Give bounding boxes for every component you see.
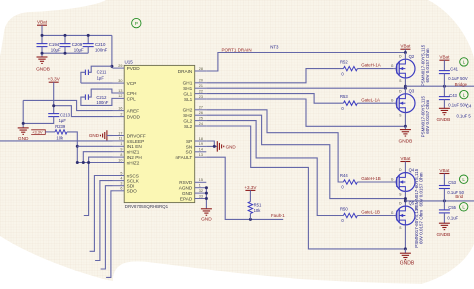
svg-text:GateL-1A: GateL-1A [361,97,380,102]
power port +3.3V left [48,77,61,114]
svg-text:30: 30 [118,79,122,83]
transistor Q3 [391,88,415,117]
svg-text:Bridge: Bridge [455,82,468,87]
svg-text:33: 33 [199,194,203,198]
wire nSLEEP rail [0,140,113,142]
resistor R52 [340,59,393,76]
svg-text:GateH-1B: GateH-1B [361,176,381,181]
wire SN [206,145,217,148]
svg-text:10µF: 10µF [51,48,61,53]
wire SP [206,141,214,146]
svg-text:SP: SP [186,139,192,144]
wire SDI [101,186,113,269]
svg-text:L: L [463,92,466,97]
annotation circle P [132,18,141,27]
ground GND at DRVOFF [89,130,113,141]
svg-text:VBat: VBat [439,55,450,60]
power port VBat Q2 [400,44,411,54]
wire PVDD feed [111,35,113,68]
transistor Q2 part text [420,44,430,86]
svg-text:14: 14 [199,148,203,152]
capacitor C194 [37,35,62,53]
svg-text:SL2: SL2 [184,124,193,129]
svg-text:60V 0.0157 Ohm: 60V 0.0157 Ohm [419,210,424,244]
svg-text:60V 0.0157 Ohm: 60V 0.0157 Ohm [425,48,430,82]
wire AREF rail [23,100,112,110]
wire VCP row [81,82,113,84]
junction dots left [22,104,56,125]
svg-text:18: 18 [199,137,203,141]
wire SCLK [95,181,112,261]
svg-text:17: 17 [118,131,122,135]
capacitor C53 [439,168,465,201]
resistor R53 [340,94,393,111]
resistor R239 [45,124,79,163]
wire DRAIN to VBat node [206,53,405,72]
svg-text:SO: SO [186,150,193,155]
svg-text:CPL: CPL [127,96,137,101]
svg-text:C41: C41 [450,66,458,71]
svg-text:22: 22 [199,89,203,93]
svg-text:G: G [391,177,394,181]
net label GateL-1B [361,210,380,215]
svg-text:IN1 EN: IN1 EN [127,144,142,149]
svg-text:GND: GND [201,217,212,223]
wire SH1 [206,87,407,90]
svg-text:GNDB: GNDB [436,232,450,238]
svg-text:VBat: VBat [400,156,411,161]
capacitor C212 [81,89,113,105]
wire nHIZ1 [83,152,112,163]
svg-text:GH1: GH1 [183,81,193,86]
svg-text:PVDD: PVDD [127,66,141,71]
junction dots cap bank [41,34,114,68]
svg-text:DRVOFF: DRVOFF [127,133,146,138]
wire EPAD ground chain [205,186,208,209]
svg-text:nSLEEP: nSLEEP [127,139,145,144]
svg-text:Q3: Q3 [409,88,415,93]
transistor Q2 [391,53,415,84]
svg-text:R239: R239 [55,124,66,129]
svg-text:nHIZ2: nHIZ2 [127,160,140,165]
svg-text:GL2: GL2 [183,119,192,124]
svg-text:15: 15 [199,178,203,182]
capacitor C43 [439,86,468,108]
svg-text:Q5: Q5 [409,201,415,206]
transistor Q3 part text [420,95,430,137]
svg-text:C212: C212 [96,95,107,100]
wire node B link [404,191,407,206]
wire nSCS [90,176,113,252]
svg-text:6: 6 [120,187,122,191]
power port +3.3V R51 [244,185,257,202]
net label GateL-1A [361,97,380,102]
svg-text:29: 29 [118,64,122,68]
ground GND left [18,128,29,142]
wire SL2 [206,126,405,249]
svg-text:5: 5 [120,171,122,175]
svg-text:0.1uF: 0.1uF [447,215,458,220]
svg-text:VCP: VCP [127,81,137,86]
ground GNDB C55 [436,223,450,238]
svg-text:L: L [462,177,465,182]
svg-text:0.1uF 50V: 0.1uF 50V [448,103,468,108]
svg-text:24: 24 [199,122,203,126]
net label GateH-1A [361,63,381,68]
svg-text:G: G [391,64,394,68]
svg-text:10k: 10k [254,208,262,213]
svg-text:R44: R44 [340,173,348,178]
wire SL1 [206,99,405,126]
annotation circle L4 [460,203,468,211]
net tie NT3 label [270,44,279,49]
wire IN1 EN [77,145,112,147]
svg-text:+3.3V: +3.3V [244,185,257,190]
svg-text:AGND: AGND [179,186,193,191]
svg-text:1µF: 1µF [59,118,67,123]
svg-text:21: 21 [199,84,203,88]
capacitor C210 [83,35,108,53]
svg-text:20: 20 [199,79,203,83]
svg-text:26: 26 [199,111,203,115]
ground GNDB cap bank [36,53,50,72]
capacitor C209 [60,35,85,53]
svg-text:PORT1 DRAIN: PORT1 DRAIN [222,47,252,52]
svg-text:C55: C55 [448,205,456,210]
svg-text:0.1uF 50: 0.1uF 50 [447,190,464,195]
svg-text:nFAULT: nFAULT [175,155,192,160]
svg-text:100nF: 100nF [96,100,108,105]
wire SDO [106,191,112,278]
wire phase A link [404,78,407,94]
svg-text:VBat: VBat [37,20,48,25]
svg-text:25: 25 [199,116,203,120]
capacitor C211 [81,66,112,83]
wire GL2 [206,121,343,216]
svg-text:C210: C210 [95,42,106,47]
svg-text:13: 13 [199,153,203,157]
power port +3.3V R239 [31,130,45,135]
wire cap bank bottom bus [42,52,88,54]
svg-text:SH1: SH1 [183,86,193,91]
svg-text:R52: R52 [340,59,348,64]
net label Bridge A [455,82,468,87]
svg-text:C213: C213 [60,113,71,118]
svg-text:C4: C4 [466,104,472,109]
svg-text:0.1uF 5: 0.1uF 5 [457,114,472,119]
svg-text:GL1: GL1 [183,92,192,97]
svg-text:GateH-1A: GateH-1A [361,63,381,68]
wire GL1 [206,94,343,104]
svg-text:13: 13 [118,89,122,93]
annotation circle L3 [460,175,468,183]
annotation circle L2 [460,90,468,98]
wire GH1 [206,69,343,83]
svg-text:GNDB: GNDB [36,66,50,72]
svg-text:C211: C211 [97,70,107,75]
svg-text:GND: GND [226,144,237,149]
svg-text:L: L [463,60,466,65]
wire VBat bus top [42,34,112,36]
ground GND EPAD [201,209,212,223]
power port VBat Q4 [400,156,411,173]
text fragment right edge [457,104,473,119]
wire Q5 source [404,225,407,250]
svg-text:19: 19 [199,142,203,146]
svg-text:C53: C53 [448,180,456,185]
svg-text:R53: R53 [340,94,348,99]
capacitor C41 [439,55,468,87]
wire IN2 PH [89,157,113,162]
transistor Q4 part text [414,168,424,210]
svg-text:1µF: 1µF [97,75,105,80]
svg-text:U15: U15 [125,59,134,64]
svg-text:DRAIN: DRAIN [178,69,193,74]
wire C213 bottom to GND leg [23,117,54,124]
svg-text:AREF: AREF [127,109,140,114]
svg-text:EPAD: EPAD [180,196,193,201]
svg-text:16: 16 [118,106,122,110]
transistor Q5 part text [414,206,424,248]
svg-text:Q2: Q2 [409,54,415,59]
svg-text:60V 0.0157 Ohm: 60V 0.0157 Ohm [425,99,430,133]
svg-text:RSVD: RSVD [179,180,193,185]
svg-text:NT3: NT3 [270,44,279,49]
svg-text:10k: 10k [56,135,64,140]
svg-text:28: 28 [199,67,203,71]
svg-text:GH2: GH2 [183,108,193,113]
net label Fault-1 [271,213,285,218]
wire Bridge row B [405,199,474,202]
svg-text:100nF: 100nF [95,48,108,53]
transistor Q5 [391,201,415,230]
power port VBat [37,20,48,36]
resistor R51 [248,202,262,220]
svg-text:G: G [391,99,394,103]
svg-text:+3.3V: +3.3V [32,130,43,135]
svg-text:L: L [462,205,465,210]
wire nFAULT to Fault-1 [206,157,283,221]
net label GateH-1B [361,176,381,181]
svg-text:C194: C194 [49,42,60,47]
svg-text:C43: C43 [449,93,457,98]
svg-text:nHIZ1: nHIZ1 [127,150,140,155]
svg-text:GateL-1B: GateL-1B [361,210,380,215]
svg-text:DRV8705SQRHBRQ1: DRV8705SQRHBRQ1 [125,204,169,209]
svg-text:IN2 PH: IN2 PH [127,155,142,160]
wire GH2 [206,110,343,182]
svg-text:SN: SN [186,144,193,149]
svg-text:2: 2 [120,112,122,116]
ground GND SP SN [217,141,236,152]
net label Bridge B [455,194,463,199]
svg-text:R50: R50 [340,206,348,211]
wire SH2 [206,115,405,198]
svg-text:9: 9 [120,148,122,152]
svg-text:1: 1 [120,142,122,146]
junction dots nHIZ2 [76,161,90,164]
op-amp U15 gate driver IC [113,59,207,209]
annotation circle L1 [460,58,468,66]
svg-text:3: 3 [120,182,122,186]
resistor R44 [340,173,393,190]
wire nHIZ2 [77,163,112,216]
ground GNDB Q3 [398,126,412,144]
svg-text:Fault-1: Fault-1 [271,213,285,218]
svg-text:4: 4 [120,176,122,180]
svg-text:0.1uF 50V: 0.1uF 50V [448,76,468,81]
svg-text:GNDB: GNDB [436,117,450,123]
svg-text:12: 12 [118,94,122,98]
transistor Q4 [391,167,415,196]
svg-text:DVDD: DVDD [127,115,141,120]
svg-text:CPH: CPH [127,91,137,96]
svg-text:+3.3V: +3.3V [48,77,61,82]
capacitor C55 [439,201,459,223]
svg-text:P: P [135,21,138,27]
svg-text:32: 32 [199,189,203,193]
wire Bridge row A [405,85,474,88]
ground GNDB Q5 [400,249,415,266]
svg-text:8: 8 [120,153,122,157]
svg-text:27: 27 [199,106,203,110]
wire Q3 source [404,113,407,128]
capacitor C213 [48,113,70,124]
svg-text:VBat: VBat [439,168,450,173]
svg-text:10: 10 [118,158,122,162]
svg-text:SDO: SDO [127,189,138,194]
svg-text:G: G [391,211,394,215]
net label PORT1 DRAIN [222,47,252,52]
resistor R50 [340,206,393,223]
svg-text:GND: GND [182,191,193,196]
svg-text:GNDB: GNDB [400,260,415,266]
svg-text:1: 1 [199,184,201,188]
svg-text:11: 11 [119,137,123,141]
svg-text:SH2: SH2 [183,113,193,118]
wire DVDD branch [54,106,113,117]
svg-text:C209: C209 [72,42,83,47]
wire GND leg left [22,100,24,127]
svg-text:VBat: VBat [400,44,411,49]
svg-text:GNDB: GNDB [398,138,412,144]
svg-text:23: 23 [199,95,203,99]
ground GNDB C43 [436,108,450,123]
svg-text:SL1: SL1 [184,97,193,102]
svg-text:10µF: 10µF [74,48,84,53]
svg-text:GND: GND [89,133,100,138]
